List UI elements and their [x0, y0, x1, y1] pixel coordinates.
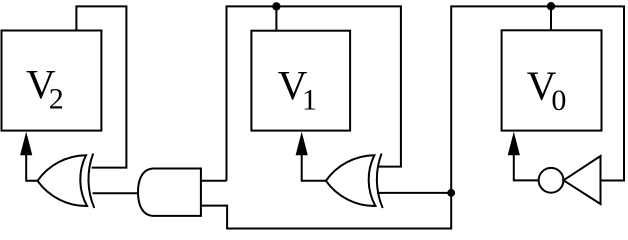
- xor gate U1 input arc: [88, 154, 94, 209]
- register box V0: [502, 30, 602, 130]
- wire AND top input: [201, 180, 227, 182]
- svg-text:1: 1: [302, 83, 317, 116]
- arrow into V1: [296, 132, 308, 156]
- wire V0 top rail: [451, 6, 624, 193]
- wire V1 top rail: [227, 6, 401, 180]
- and gate U2: [138, 169, 201, 216]
- inverter U4 bubble: [539, 168, 564, 193]
- svg-text:2: 2: [49, 82, 64, 115]
- wire XOR2 output to V1 arrow: [302, 154, 326, 181]
- xor gate U1 body: [38, 155, 88, 206]
- arrow into V0: [508, 132, 520, 156]
- wire inverter output to V0 arrow: [514, 154, 539, 180]
- wire XOR1 output to V2 arrow: [26, 154, 37, 181]
- wire AND output to XOR1 lower input: [93, 192, 140, 194]
- junction dot V0 feedback node: [447, 189, 455, 197]
- label V0: [527, 62, 567, 117]
- xor gate U3 input arc: [377, 154, 383, 209]
- xor gate U3 body: [326, 155, 376, 206]
- label V2: [26, 61, 64, 116]
- svg-text:0: 0: [551, 84, 566, 117]
- inverter U4 triangle: [564, 156, 601, 204]
- wire AND bottom input feedback from V0: [201, 193, 451, 229]
- wire V2 output to XOR1 top input: [76, 6, 126, 167]
- register box V1: [251, 31, 350, 131]
- wire XOR2 lower input from junction: [377, 192, 451, 194]
- register box V2: [2, 31, 102, 131]
- junction dot above V1: [272, 2, 280, 10]
- junction dot above V0: [547, 2, 555, 10]
- label V1: [278, 62, 317, 117]
- arrow into V2: [20, 132, 32, 156]
